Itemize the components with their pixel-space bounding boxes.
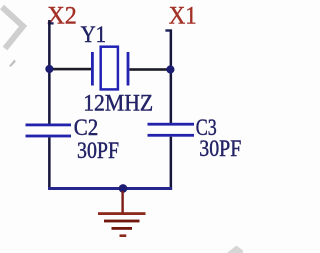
ground bar 2: [104, 220, 140, 223]
wire: crystal left lead: [52, 68, 91, 71]
svg-text:12MHZ: 12MHZ: [83, 91, 153, 116]
crystal left plate: [91, 52, 94, 86]
capacitor C3: [148, 123, 195, 137]
ground bar 1: [98, 212, 146, 215]
wire: bottom horizontal bus: [48, 187, 172, 190]
wire: X2 vertical upper segment: [48, 20, 51, 125]
capacitor C2: [26, 124, 72, 138]
junction node right: [166, 65, 174, 73]
crystal body rectangle: [101, 47, 118, 90]
svg-text:X2: X2: [47, 3, 77, 30]
wire: X2 top stub tick: [48, 22, 54, 24]
svg-text:C2: C2: [74, 115, 99, 140]
crystal Y1: [91, 47, 129, 90]
wire: X1 top stub tick: [165, 29, 172, 31]
crystal right plate: [127, 52, 130, 86]
ground bar 3: [112, 227, 133, 230]
svg-text:Y1: Y1: [81, 22, 107, 48]
ground symbol: [98, 191, 146, 237]
C2 top plate: [26, 124, 72, 127]
wire: C2 lower vertical segment: [48, 137, 51, 189]
wire: X1 vertical upper segment: [170, 30, 173, 125]
junction node left: [45, 65, 53, 73]
svg-text:30PF: 30PF: [77, 138, 119, 164]
svg-text:30PF: 30PF: [199, 136, 241, 162]
watermark chevron artifact top-left: [2, 7, 23, 49]
C3 bottom plate: [148, 134, 195, 137]
watermark small mark left: [9, 60, 16, 67]
C2 bottom plate: [26, 135, 72, 138]
junction node bottom (ground tap): [119, 184, 128, 193]
C3 top plate: [148, 123, 195, 126]
wire: crystal right lead: [130, 68, 168, 71]
ground stem: [121, 191, 123, 213]
wire: C3 lower vertical segment: [170, 137, 173, 189]
svg-text:X1: X1: [169, 3, 197, 30]
ground bar 4: [120, 234, 127, 237]
watermark blob bottom-right: [227, 246, 243, 253]
